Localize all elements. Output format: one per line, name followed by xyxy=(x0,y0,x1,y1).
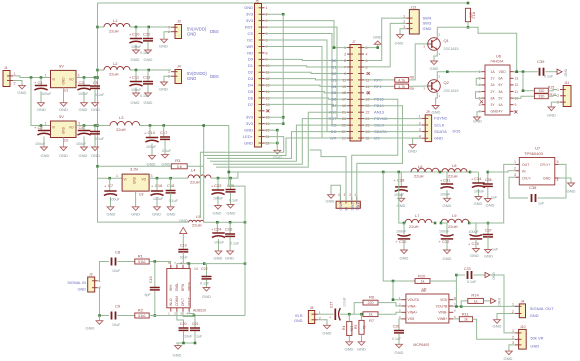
svg-text:GND: GND xyxy=(432,110,441,115)
svg-text:GND: GND xyxy=(79,153,88,158)
pin bottom OFLT U5 xyxy=(182,308,184,312)
resistor R5 xyxy=(359,320,364,334)
wire rail2 drop xyxy=(229,126,245,316)
svg-text:50k VR: 50k VR xyxy=(530,335,543,340)
pin 12 U6 xyxy=(510,84,514,86)
pin bottom INLO U5 xyxy=(170,308,172,312)
wire J12 gnd xyxy=(331,185,340,201)
inductor L5 xyxy=(189,220,204,222)
svg-text:CFLY+: CFLY+ xyxy=(540,163,550,167)
svg-text:GND: GND xyxy=(62,126,66,134)
svg-text:D4: D4 xyxy=(248,82,254,87)
svg-text:1: 1 xyxy=(512,329,514,333)
svg-text:100uF: 100uF xyxy=(35,142,46,146)
svg-text:GND: GND xyxy=(18,90,27,95)
capacitor C16 plates xyxy=(151,190,163,192)
wire C10 gnd xyxy=(135,45,137,51)
svg-text:0.1uF: 0.1uF xyxy=(140,94,150,98)
ground C31 xyxy=(444,198,451,202)
node C18 xyxy=(169,177,172,180)
wire J7 row15 loop xyxy=(204,138,347,155)
wire J3 pin2 gnd xyxy=(164,32,171,40)
wire R5 top xyxy=(361,314,363,320)
svg-text:GND: GND xyxy=(547,113,556,118)
wire U6 1Y to 2A xyxy=(476,78,481,85)
svg-text:GND: GND xyxy=(167,212,176,217)
wire R16 to J11 pin2 xyxy=(548,95,557,98)
svg-text:GND: GND xyxy=(37,107,46,112)
capacitor C14 xyxy=(149,126,151,138)
capacitor C20 xyxy=(179,327,189,329)
capacitor C34 plates xyxy=(472,182,484,184)
svg-text:330: 330 xyxy=(538,95,544,99)
svg-text:C10: C10 xyxy=(132,32,140,37)
svg-text:VINB-: VINB- xyxy=(438,311,447,315)
ground U6 xyxy=(474,117,481,121)
svg-text:GND: GND xyxy=(152,212,161,217)
ground C25 xyxy=(227,205,234,209)
svg-text:22uH: 22uH xyxy=(192,223,202,228)
connector J11 xyxy=(563,86,571,107)
pin bottom VOUT U5 xyxy=(188,308,190,312)
svg-text:U1: U1 xyxy=(64,89,68,93)
IC U8 MCP6492 xyxy=(406,294,449,323)
svg-text:51k1: 51k1 xyxy=(138,314,146,318)
pin 1 J11 xyxy=(560,89,566,91)
capacitor C12 xyxy=(147,27,149,38)
capacitor C15 xyxy=(154,262,156,288)
svg-text:GND: GND xyxy=(107,212,116,217)
capacitor C11 plates xyxy=(130,81,142,83)
wire C20 down xyxy=(183,331,185,343)
output flag B xyxy=(485,272,490,277)
svg-text:DC: DC xyxy=(247,37,253,42)
capacitor C6 plates xyxy=(90,131,100,133)
node C31 xyxy=(439,171,442,174)
node R10 in xyxy=(392,280,395,283)
svg-text:5pF: 5pF xyxy=(145,293,152,297)
pin 3 J5 xyxy=(259,20,265,22)
svg-text:22uH: 22uH xyxy=(109,72,119,77)
capacitor C37 plates xyxy=(483,234,493,236)
capacitor C12 plates xyxy=(143,38,153,40)
connector J2 xyxy=(88,277,95,292)
pin 21 J7 xyxy=(347,111,353,113)
pin 8 U8 VDD xyxy=(449,299,453,301)
node VOUTB a xyxy=(455,305,458,308)
svg-text:4.7k: 4.7k xyxy=(398,85,405,89)
pin top BFIN U5 xyxy=(182,265,184,269)
svg-text:0.1uF: 0.1uF xyxy=(162,149,172,153)
ground J5 xyxy=(274,150,281,154)
svg-text:6: 6 xyxy=(479,103,481,107)
wire J5 pin7 to J7 xyxy=(265,46,348,138)
svg-text:6A: 6A xyxy=(499,77,504,81)
svg-text:19: 19 xyxy=(342,104,346,108)
ground C28 xyxy=(398,198,405,202)
output flag GND top right xyxy=(557,69,562,74)
capacitor C5 xyxy=(94,78,96,86)
svg-text:C32: C32 xyxy=(442,239,450,244)
ground C18 xyxy=(167,207,174,211)
ground J8 xyxy=(324,325,331,329)
node VDD join xyxy=(515,70,518,73)
connector J13 xyxy=(409,10,419,34)
wire J7 row11 loop xyxy=(216,112,347,167)
svg-text:10uF: 10uF xyxy=(180,256,189,260)
capacitor C24 xyxy=(216,222,218,232)
ground Q1 xyxy=(431,61,438,65)
svg-text:GND: GND xyxy=(187,76,196,81)
node VPOS xyxy=(188,262,191,265)
resistor R3 xyxy=(171,164,187,169)
svg-text:C25: C25 xyxy=(227,183,235,188)
pin 12 J5 xyxy=(259,78,265,80)
node rail2 tap xyxy=(96,124,99,127)
pin 26 J7 xyxy=(358,124,364,126)
svg-text:100uF: 100uF xyxy=(394,193,405,197)
svg-text:D7: D7 xyxy=(248,102,254,107)
svg-text:5V: 5V xyxy=(59,114,64,119)
wire gnd vertical xyxy=(276,130,278,150)
ground C23 xyxy=(215,206,222,210)
pin 7 U6 xyxy=(482,110,486,112)
wire C22 gnd xyxy=(206,280,208,288)
ground C34 xyxy=(475,197,482,201)
wire J9 gnd xyxy=(413,138,422,144)
transistor Q2 xyxy=(428,80,441,93)
capacitor C10 plates xyxy=(130,38,142,40)
pin 1 J12 xyxy=(339,197,341,204)
node C7 xyxy=(108,177,111,180)
wire J5 pin19 xyxy=(265,123,284,125)
svg-text:GND: GND xyxy=(423,26,432,31)
ground C22 xyxy=(203,288,210,292)
wire top 3V3 rail xyxy=(98,2,469,4)
svg-text:CS: CS xyxy=(247,31,253,36)
capacitor C7 xyxy=(109,178,111,191)
capacitor C11 xyxy=(135,70,137,81)
svg-text:GND: GND xyxy=(244,5,253,10)
node C37 xyxy=(487,222,490,225)
svg-text:GND: GND xyxy=(543,177,551,181)
wire C13 gnd xyxy=(147,85,149,93)
wire R4 gnd xyxy=(348,336,350,342)
svg-text:100uF: 100uF xyxy=(474,190,485,194)
wire L4 row xyxy=(211,172,238,178)
capacitor C17 xyxy=(163,126,165,137)
svg-text:D5: D5 xyxy=(331,90,337,95)
svg-text:GND: GND xyxy=(443,256,452,261)
svg-text:R7: R7 xyxy=(369,318,375,323)
pin 17 J7 xyxy=(347,98,353,100)
node C12 xyxy=(147,26,150,29)
ground U3 xyxy=(132,207,139,211)
resistor R7 xyxy=(363,312,378,317)
capacitor C14 plates xyxy=(146,137,158,139)
wire VDD drop xyxy=(455,275,457,307)
svg-text:GND: GND xyxy=(91,153,100,158)
svg-text:C39: C39 xyxy=(537,59,545,64)
wire C35 gnd xyxy=(475,239,477,249)
wire C39 out xyxy=(546,71,558,73)
ground C1 xyxy=(38,103,45,107)
svg-text:OFLT: OFLT xyxy=(181,298,185,306)
svg-text:3V3: 3V3 xyxy=(246,12,254,17)
resistor R10 xyxy=(415,279,430,284)
node 3V3 a xyxy=(282,13,285,16)
node C1 xyxy=(40,76,43,79)
svg-text:C16: C16 xyxy=(155,183,163,188)
svg-text:C1: C1 xyxy=(38,80,44,85)
wire J11 gnd xyxy=(551,102,560,107)
capacitor C25 xyxy=(230,178,232,189)
wire U1 out rail 5V xyxy=(76,77,98,79)
node rail2 x203 xyxy=(202,124,205,127)
capacitor C13 plates xyxy=(143,81,153,83)
svg-text:GND: GND xyxy=(474,201,483,206)
node R10 feed xyxy=(382,171,385,174)
svg-text:SW4: SW4 xyxy=(423,15,432,20)
node C30 xyxy=(403,222,406,225)
pin 5 J7 xyxy=(347,60,353,62)
svg-text:1uF: 1uF xyxy=(491,196,498,200)
svg-text:C14: C14 xyxy=(148,130,156,135)
svg-text:5: 5 xyxy=(344,59,346,63)
wire L3 rail2 east xyxy=(140,125,229,127)
svg-text:GND: GND xyxy=(159,44,168,49)
svg-text:D6: D6 xyxy=(331,97,337,102)
svg-text:1k: 1k xyxy=(421,280,425,284)
svg-text:GND: GND xyxy=(530,313,539,318)
wire VDD tap xyxy=(453,299,456,301)
capacitor C26 plates xyxy=(225,233,235,235)
svg-text:3V3: 3V3 xyxy=(246,18,254,23)
svg-text:GND: GND xyxy=(41,153,50,158)
wire VINB+ to R11 xyxy=(453,318,459,320)
svg-text:2: 2 xyxy=(14,82,16,86)
svg-text:1: 1 xyxy=(45,122,47,126)
wire U7 CFLY- to C38 xyxy=(509,177,528,198)
pin 25 J7 xyxy=(347,124,353,126)
svg-text:J8: J8 xyxy=(310,306,314,310)
resistor R6 xyxy=(363,300,378,305)
svg-text:GND: GND xyxy=(493,324,502,329)
capacitor C4 xyxy=(83,126,85,131)
node gnd C20 xyxy=(182,342,185,345)
ground U7 xyxy=(568,183,575,187)
connector J5 xyxy=(255,4,262,148)
svg-text:U7: U7 xyxy=(535,146,541,151)
wire C9 to R2 xyxy=(118,315,135,317)
svg-text:INHI: INHI xyxy=(169,285,173,291)
regulator U1 xyxy=(51,70,77,87)
pin 19 J5 xyxy=(259,123,265,125)
svg-text:100uF: 100uF xyxy=(396,230,407,234)
svg-text:12: 12 xyxy=(515,83,519,87)
node C4 xyxy=(83,124,86,127)
node R12 Q1 xyxy=(467,26,470,29)
svg-text:1k: 1k xyxy=(464,318,468,322)
svg-text:D1: D1 xyxy=(331,64,337,69)
svg-text:U2: U2 xyxy=(64,139,68,143)
svg-text:100uF: 100uF xyxy=(131,88,142,92)
node C5 xyxy=(94,76,97,79)
svg-text:SDATA: SDATA xyxy=(434,129,447,134)
pin 2 J9 xyxy=(422,124,429,126)
wire C26 gnd xyxy=(398,334,400,345)
wire L1 to J3 xyxy=(130,26,171,28)
IC U6 74HC04 xyxy=(485,65,510,115)
svg-text:GND: GND xyxy=(173,353,182,358)
pin 22 J7 xyxy=(358,111,364,113)
wire data D0 xyxy=(265,59,348,60)
node row2 feed xyxy=(398,171,401,174)
svg-text:11: 11 xyxy=(515,90,519,94)
capacitor C30 xyxy=(403,223,405,235)
svg-text:GND: GND xyxy=(227,211,236,216)
wire R1 to INHI xyxy=(149,262,170,265)
pin 16 J5 xyxy=(259,103,265,105)
wire to L1 xyxy=(98,26,105,28)
svg-text:14: 14 xyxy=(194,267,198,271)
svg-text:BFIN: BFIN xyxy=(181,283,185,291)
svg-text:RST: RST xyxy=(245,25,254,30)
capacitor C2 plates xyxy=(38,130,50,132)
pin 14 J5 xyxy=(259,91,265,93)
svg-text:GND: GND xyxy=(470,253,479,258)
svg-text:C28: C28 xyxy=(397,178,405,183)
svg-text:100uF: 100uF xyxy=(153,197,164,201)
ground U2 xyxy=(60,147,67,151)
wire R2 to INLO xyxy=(149,315,245,317)
connector J6 xyxy=(519,304,525,318)
node R15 xyxy=(522,89,525,92)
svg-text:3: 3 xyxy=(514,173,516,177)
pin 30 J7 xyxy=(358,137,364,139)
svg-text:R15: R15 xyxy=(548,86,555,90)
svg-text:CFLY-: CFLY- xyxy=(522,177,531,181)
capacitor C38 xyxy=(531,194,533,202)
resistor R9 xyxy=(395,84,409,89)
svg-text:9: 9 xyxy=(344,72,346,76)
capacitor C28 plates xyxy=(395,186,407,188)
pin 29 J7 xyxy=(347,137,353,139)
capacitor C1 plates xyxy=(35,85,47,87)
svg-text:5Y: 5Y xyxy=(499,96,504,100)
node C32 xyxy=(440,222,443,225)
ground C24 xyxy=(215,251,222,255)
svg-text:GND: GND xyxy=(202,294,211,299)
svg-text:1: 1 xyxy=(354,193,356,197)
svg-text:10uF: 10uF xyxy=(184,335,193,339)
node C16 xyxy=(156,177,159,180)
capacitor C28 xyxy=(400,172,402,186)
inductor L1 xyxy=(104,23,130,27)
wire R10 right xyxy=(430,280,456,282)
ground C32 xyxy=(444,250,451,254)
pin top VPOS U5 xyxy=(188,265,190,269)
pin 1 J13 xyxy=(406,17,412,19)
ground J9 xyxy=(409,145,416,149)
capacitor C19 plates xyxy=(178,249,188,251)
wire C31 gnd xyxy=(446,190,448,198)
svg-text:22uH: 22uH xyxy=(448,174,458,179)
capacitor C9 xyxy=(111,312,113,320)
svg-text:C21: C21 xyxy=(192,322,199,326)
svg-text:D2: D2 xyxy=(248,70,254,75)
svg-text:1k: 1k xyxy=(369,313,373,317)
wire J7 row12 loop xyxy=(213,119,347,165)
capacitor C18 plates xyxy=(166,190,176,192)
svg-text:0.1uF: 0.1uF xyxy=(200,282,210,286)
svg-text:2Y: 2Y xyxy=(491,90,496,94)
pin 7 U8 VOUTB xyxy=(449,305,453,307)
svg-text:GND: GND xyxy=(357,347,366,352)
pin 3 J12 xyxy=(351,197,353,204)
svg-text:L2: L2 xyxy=(113,61,118,66)
connector J3 xyxy=(175,25,182,39)
svg-text:0.1uF: 0.1uF xyxy=(169,199,179,203)
node C33 row xyxy=(455,274,458,277)
svg-text:RD: RD xyxy=(247,50,253,55)
node L2 tap xyxy=(96,69,99,72)
pin 1 J7 xyxy=(347,47,353,49)
capacitor C23 xyxy=(217,178,219,190)
svg-text:GND: GND xyxy=(78,288,87,292)
node C25 xyxy=(229,177,232,180)
svg-text:R14: R14 xyxy=(471,293,479,298)
wire J10 pin3 gnd xyxy=(509,345,515,351)
node rail feed xyxy=(228,171,231,174)
svg-text:1: 1 xyxy=(512,302,514,306)
svg-text:15: 15 xyxy=(342,91,346,95)
svg-text:1uF: 1uF xyxy=(196,335,203,339)
svg-text:0.1uF: 0.1uF xyxy=(467,280,477,284)
capacitor C23 plates xyxy=(212,189,224,191)
svg-text:C34: C34 xyxy=(474,176,482,181)
pin 5 U6 xyxy=(482,97,486,99)
wire U7 GND xyxy=(559,178,572,183)
svg-text:3V3: 3V3 xyxy=(246,115,254,120)
node gnd b xyxy=(276,142,279,145)
wire Q2 collector xyxy=(437,72,447,80)
pin 2 J5 xyxy=(259,13,265,15)
wire R15 to J11 pin1 xyxy=(548,90,557,91)
svg-text:TPS60403: TPS60403 xyxy=(524,151,544,156)
capacitor C8 xyxy=(111,258,113,266)
wire C20 C21 gnd join xyxy=(176,342,195,344)
node loop join b xyxy=(244,262,247,265)
ground J13 xyxy=(397,35,404,39)
node C35 row2 xyxy=(468,222,471,225)
wire U6 gnd pin7 xyxy=(477,112,482,117)
capacitor C33 out xyxy=(467,271,469,279)
svg-text:R6: R6 xyxy=(369,295,375,300)
svg-text:5A: 5A xyxy=(499,90,504,94)
svg-text:C5: C5 xyxy=(93,80,99,85)
wire PB15 to J12 SW2 xyxy=(352,99,398,201)
wire J5 pin18 xyxy=(265,116,284,118)
wire R14 to flag xyxy=(483,300,490,302)
pin 5 U8 VINB+ xyxy=(449,318,453,320)
wire data D7 xyxy=(265,104,348,105)
svg-text:GND: GND xyxy=(339,202,343,211)
wire J5 3V3 to J7 pin1 xyxy=(265,21,335,48)
svg-text:J5: J5 xyxy=(255,0,259,4)
node gnd a xyxy=(276,129,279,132)
wire C7 gnd xyxy=(110,197,112,207)
